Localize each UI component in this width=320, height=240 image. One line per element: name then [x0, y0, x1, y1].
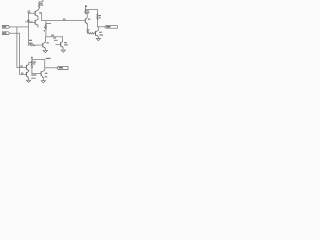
label Q8 — [21, 73, 23, 74]
resistor R5 (right vertical) — [97, 9, 101, 26]
wire Q8 base — [20, 73, 27, 75]
ground below Q4 — [61, 50, 65, 52]
wire VCC2 down — [84, 7, 86, 10]
port In1 — [2, 26, 9, 29]
resistor R1 — [39, 2, 44, 9]
wire collector node to long rail — [40, 13, 42, 21]
port Out2 — [57, 66, 68, 69]
label Q1 — [39, 12, 41, 13]
wire horizontal mid node — [46, 36, 63, 38]
resistor R4 — [85, 9, 90, 13]
transistor Q3 — [43, 37, 46, 50]
resistor R2 — [44, 21, 51, 37]
ground below Q9 — [41, 81, 45, 83]
wire vertical drop from In2 net — [19, 33, 21, 74]
wire R7 bottom to Q9 base — [32, 72, 41, 75]
wire vertical drop from In1 net — [16, 27, 18, 68]
net label right — [46, 58, 51, 59]
labels Q6 — [99, 32, 102, 33]
wire Q4 base stub — [56, 43, 61, 45]
transistor Q7 (upper small, bottom block) — [26, 62, 32, 71]
wire port In1 to bus — [10, 26, 29, 28]
transistor Q4 — [61, 42, 63, 51]
transistor Q2 — [35, 19, 38, 27]
power flag VCC3 (bottom-left) — [31, 57, 33, 59]
ground below Q3 — [43, 50, 47, 52]
wire output node — [97, 26, 104, 28]
labels Q4 — [64, 42, 67, 43]
power flag VCC2 (top-right) — [85, 5, 87, 6]
background — [0, 0, 120, 89]
transistor Q5 — [85, 18, 87, 34]
transistor Q6 — [96, 27, 99, 39]
transistor Q8 (lower small, bottom block) — [26, 71, 28, 80]
wire R1 bottom to Q1 collector — [38, 9, 39, 11]
label below mid wire — [53, 37, 56, 38]
wire down to Q4 — [62, 37, 64, 42]
ground below Q6 — [96, 39, 100, 41]
resistor R6 (horizontal into Q6 base) — [87, 29, 96, 34]
wire long horizontal rail — [42, 20, 85, 22]
wire bottom collector rail — [32, 59, 45, 61]
labels Q2 — [27, 20, 30, 21]
resistor R3 (horizontal, in Q3 base) — [28, 44, 42, 45]
labels below base wire — [31, 74, 36, 75]
port Out1 — [104, 25, 117, 28]
wire top-right horizontal — [85, 8, 97, 10]
wire Q7 base — [17, 66, 26, 68]
wire R4 bottom to Q5 collector — [85, 14, 87, 18]
wire bottom output — [45, 67, 57, 69]
wire Q1 base — [28, 12, 35, 14]
power flag VCC1 (top-left) — [39, 1, 43, 2]
ground below Q8 — [26, 80, 30, 82]
resistor R3 labels — [29, 40, 32, 41]
wire port In2 stub — [10, 32, 20, 34]
label Q7 — [20, 66, 23, 67]
transistor Q1 — [35, 10, 38, 19]
wire Q2 base — [28, 21, 35, 23]
transistor Q9 (bottom output) — [41, 60, 45, 81]
label Q3 — [46, 42, 48, 43]
wire left vertical bus — [27, 13, 29, 45]
label Q5 — [88, 19, 90, 20]
net label on rail — [63, 19, 66, 20]
resistor R7 (vertical bottom-left) — [31, 58, 36, 72]
labels Q9 — [45, 73, 48, 74]
port In2 — [2, 32, 9, 35]
label above mid wire — [51, 35, 54, 36]
